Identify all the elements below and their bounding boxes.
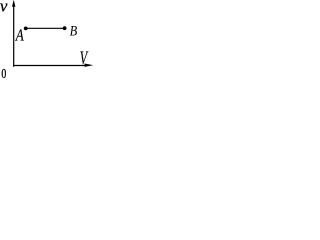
svg-text:B: B [70,23,78,39]
svg-text:v: v [0,0,8,16]
svg-text:0: 0 [1,66,6,79]
svg-text:A: A [15,26,24,45]
